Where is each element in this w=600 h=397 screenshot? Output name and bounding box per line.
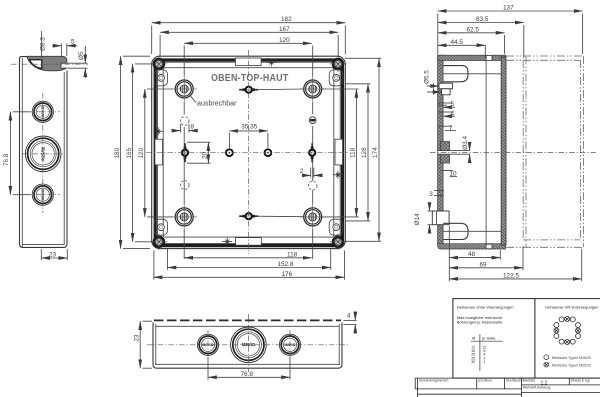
bottom screw pocket square: [486, 244, 492, 249]
mounting lug (side view, dark flap): [27, 56, 68, 71]
svg-text:174: 174: [372, 147, 379, 158]
svg-text:Werkstoff,Halbzeug: Werkstoff,Halbzeug: [523, 386, 551, 390]
link line top: [256, 88, 304, 91]
center hole B: [265, 149, 272, 156]
svg-text:10: 10: [450, 171, 458, 178]
dimension 48: [448, 226, 450, 281]
dimension 182: [151, 26, 153, 55]
svg-text:118: 118: [287, 251, 298, 258]
dimension 174 right: [345, 57, 381, 59]
vertical centreline: [248, 50, 250, 254]
wall cross marker top: [266, 58, 276, 66]
long extension line x312.7: [312, 46, 314, 77]
dimension 44.5: [484, 45, 486, 57]
svg-text:Gehaeuse mit Vorpraegungen: Gehaeuse mit Vorpraegungen: [545, 304, 598, 309]
hidden top edge (heavy dashed): [154, 319, 341, 321]
corner screw TR: [330, 55, 347, 72]
horizontal centreline: [146, 152, 349, 154]
svg-text:Metrische Typen M16/20: Metrische Typen M16/20: [552, 356, 591, 360]
svg-text:176: 176: [282, 271, 293, 278]
knockout B1: [197, 334, 218, 355]
knockout cylinder Ø14: [432, 211, 449, 225]
dimension 152.8: [167, 248, 169, 270]
horizontal centreline: [430, 151, 597, 153]
knockout K2 (large): [25, 136, 61, 172]
plugged hole TR: [309, 117, 316, 124]
svg-text:Ø5: Ø5: [78, 51, 85, 60]
svg-text:Bohrungen je Kastenseite: Bohrungen je Kastenseite: [457, 320, 504, 325]
knockout TL: [171, 76, 197, 102]
dimension 23: [40, 249, 42, 260]
svg-text:69: 69: [480, 261, 488, 268]
corner boss BR: [329, 219, 343, 235]
svg-text:Oberflaeche: Oberflaeche: [506, 379, 524, 383]
long extension line x184: [183, 46, 185, 77]
lug hole lines: [61, 63, 67, 68]
metric hole left (slotted): [182, 143, 188, 162]
dimension 83.5: [523, 25, 525, 58]
dimension 5: [60, 44, 62, 58]
dimension Ø8.3: [41, 31, 43, 58]
svg-text:1: 1: [484, 360, 486, 364]
knockout K1: [32, 101, 53, 122]
bottom boss section: [443, 223, 468, 239]
svg-text:44.5: 44.5: [451, 39, 464, 46]
left wall hatched: [438, 55, 444, 244]
legend entry M25/32: [544, 362, 549, 367]
dimension 120 top: [184, 42, 311, 44]
dimension 5: [438, 102, 452, 104]
svg-text:ausbrechbar: ausbrechbar: [197, 100, 237, 107]
left view inner wall lines: [21, 58, 23, 247]
svg-text:120: 120: [138, 147, 145, 158]
svg-text:Gehaeuse ohne Vorpraegungen: Gehaeuse ohne Vorpraegungen: [457, 304, 514, 309]
metric hole bottom: [239, 213, 258, 219]
right wall notch: [335, 139, 343, 165]
dimension 2: [310, 168, 312, 178]
knockout BR: [300, 204, 326, 230]
svg-text:48: 48: [468, 251, 476, 258]
boss hole Ø3.4: [438, 151, 470, 155]
dashed circle BR: [308, 181, 317, 190]
svg-text:M: M: [472, 335, 475, 340]
inner face line: [485, 61, 487, 244]
corner boss BL: [154, 219, 168, 235]
svg-text:4: 4: [347, 313, 351, 320]
corner boss TL: [154, 70, 168, 86]
svg-text:167: 167: [279, 26, 290, 33]
knockout TR: [300, 76, 326, 102]
dimension 3: [434, 189, 444, 191]
top wall notch: [235, 58, 261, 66]
svg-text:76.8: 76.8: [241, 371, 254, 378]
dimension 76.8 bottom view: [207, 357, 209, 380]
horizontal centreline: [147, 344, 348, 346]
legend entry M16/20: [544, 355, 549, 360]
dimension 35.35: [228, 133, 230, 148]
metric hole top: [239, 87, 258, 93]
center hole A: [226, 149, 233, 156]
knockout K3: [32, 184, 53, 205]
svg-text:Maßstab: Maßstab: [523, 379, 536, 383]
svg-text:35.35: 35.35: [241, 123, 257, 130]
dimension 180: [123, 55, 150, 57]
svg-text:62.5: 62.5: [467, 26, 480, 33]
svg-text:137: 137: [503, 5, 514, 12]
bottom rim hatched: [438, 244, 506, 249]
dimension 176: [153, 251, 155, 280]
dimension 4: [439, 111, 452, 113]
lug centerline: [11, 63, 88, 65]
svg-text:165: 165: [126, 147, 133, 158]
corner boss TR: [329, 70, 343, 86]
dashed circle TL: [180, 117, 189, 126]
svg-text:120: 120: [279, 37, 290, 44]
table lines: [479, 334, 481, 371]
dimension 4 wall: [344, 319, 357, 321]
svg-text:5: 5: [451, 101, 455, 108]
svg-text:2: 2: [300, 168, 304, 175]
dimension 128 right: [345, 83, 370, 85]
svg-text:122.5: 122.5: [503, 272, 519, 279]
svg-text:76.8: 76.8: [3, 153, 10, 166]
dimension 62.5: [504, 35, 506, 54]
inner bottom line: [155, 363, 340, 365]
svg-text:23: 23: [133, 334, 140, 342]
svg-text:Verwendungsbereich: Verwendungsbereich: [419, 379, 449, 383]
hatched boss block: [440, 142, 449, 164]
dimension 120 left: [147, 88, 173, 90]
thick wall band: [155, 60, 342, 246]
svg-text:152.8: 152.8: [278, 261, 294, 268]
wall cross marker right: [333, 171, 343, 179]
corner screw BR: [330, 233, 347, 250]
svg-text:(Masse in kg): (Masse in kg): [571, 379, 590, 383]
outer case outline: [152, 56, 346, 248]
svg-text:4: 4: [451, 110, 455, 117]
dimension 118 right: [322, 88, 359, 90]
body outline: [153, 323, 342, 369]
right wall (box bottom) hatched bar: [501, 57, 506, 245]
bottom wall notch: [236, 238, 262, 246]
dimension 20: [187, 141, 211, 143]
svg-text:182: 182: [281, 16, 292, 23]
dimension 165: [135, 63, 152, 65]
panel divider: [534, 299, 536, 379]
lower strip frame: [415, 378, 600, 397]
dimension 118 bottom: [184, 257, 311, 259]
wall cross marker bottom: [222, 238, 232, 246]
svg-text:Ø8.3: Ø8.3: [40, 37, 47, 51]
svg-text:23: 23: [49, 251, 57, 258]
left wall notch: [155, 139, 163, 165]
dimension 69: [522, 246, 524, 270]
svg-text:Metrische Typen M25/32: Metrische Typen M25/32: [552, 363, 591, 367]
dimension 23 bottom view: [143, 320, 153, 322]
svg-text:3: 3: [429, 191, 433, 198]
wall cross marker left: [153, 127, 163, 135]
rim line: [156, 325, 339, 327]
knockout B3: [279, 334, 300, 355]
dimension 137: [437, 14, 439, 55]
svg-text:Ø3.4: Ø3.4: [462, 135, 469, 149]
vertical centrelines: [207, 330, 209, 360]
svg-text:32: 32: [471, 360, 475, 364]
dimension 122.5: [581, 249, 583, 281]
svg-text:(Zul.Abw.): (Zul.Abw.): [478, 379, 492, 383]
ausbrechbar label and leader: [191, 96, 196, 102]
horizontal centrelines: [26, 111, 60, 113]
dashed circle BL: [180, 181, 189, 190]
corner screw TL: [150, 55, 167, 72]
svg-text:Ø5.5: Ø5.5: [423, 70, 430, 84]
mounting lug section: [443, 66, 468, 82]
svg-text:128: 128: [361, 147, 368, 158]
corner screw BL: [150, 233, 167, 250]
svg-text:8: 8: [191, 124, 195, 131]
knockout B2 (large): [231, 327, 267, 363]
inner wall edge: [158, 62, 341, 243]
svg-text:OBEN-TOP-HAUT: OBEN-TOP-HAUT: [211, 73, 289, 84]
svg-text:Ø14: Ø14: [414, 213, 421, 226]
svg-text:20: 20: [201, 151, 208, 159]
lug white pocket: [30, 60, 42, 69]
phantom lid outline: [506, 55, 584, 57]
screw pocket square: [486, 55, 492, 60]
knockout BL: [171, 204, 197, 230]
svg-text:180: 180: [114, 147, 121, 158]
dimension 10: [440, 170, 453, 172]
dimension 76.8: [13, 111, 30, 113]
inner floor rectangle: [163, 68, 334, 237]
top rim hatched: [438, 55, 487, 60]
left view body outline: [20, 57, 68, 248]
svg-text:83.5: 83.5: [476, 16, 489, 23]
dimension Ø14: [428, 210, 433, 212]
dimension 167: [159, 35, 161, 57]
side inner lines: [155, 324, 157, 365]
metric hole right (slotted): [309, 143, 315, 162]
svg-text:7: 7: [449, 125, 453, 132]
dimension Ø5: [67, 62, 87, 64]
svg-text:je Seite: je Seite: [481, 335, 496, 340]
svg-text:5: 5: [71, 39, 75, 46]
dimension 8: [179, 124, 181, 133]
knockout ring diagram: [554, 317, 581, 345]
link line bottom: [256, 215, 304, 218]
svg-text:118: 118: [350, 147, 357, 158]
screw head section: [439, 83, 453, 89]
dimension 7: [438, 125, 452, 127]
vertical centreline: [42, 93, 44, 213]
main box frame: [453, 299, 600, 379]
